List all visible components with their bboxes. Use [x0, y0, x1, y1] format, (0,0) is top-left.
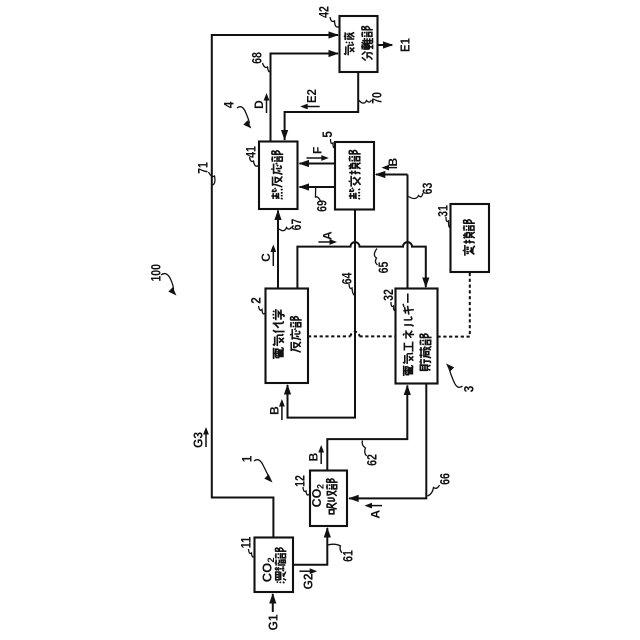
wire 62 B : 吸収部 -> 貯蔵部	[327, 386, 407, 471]
svg-text:C: C	[259, 253, 273, 262]
dashed link 貯蔵部 - 変換部	[438, 273, 470, 337]
svg-text:11: 11	[238, 536, 254, 548]
dashed link 電気化学反応部 - 貯蔵部	[308, 335, 351, 337]
svg-text:G1: G1	[266, 615, 281, 631]
svg-text:G2: G2	[301, 574, 316, 590]
wire 66 A : 貯蔵部 -> 吸収部	[349, 384, 426, 499]
svg-text:B: B	[268, 406, 282, 415]
wire 68 D : 熱反応部 -> 気液分離部	[271, 54, 339, 142]
svg-text:65: 65	[375, 261, 391, 273]
box 2 電気化学反応部	[266, 289, 309, 384]
svg-text:1: 1	[239, 456, 255, 463]
svg-text:E2: E2	[305, 89, 319, 103]
svg-text:F: F	[311, 147, 325, 154]
svg-text:71: 71	[195, 162, 211, 174]
svg-text:31: 31	[435, 205, 451, 217]
wire 71 G3 line : CO2濃縮部 -> 気液分離部	[212, 35, 338, 538]
box 31 変換部	[451, 204, 490, 272]
wire 70 E2 : 気液分離部 -> 熱反応部	[285, 72, 359, 140]
svg-text:5: 5	[319, 131, 335, 138]
wire 67 C : 電気化学反応部 -> 熱反応部	[277, 211, 279, 289]
box 5 熱交換部	[335, 142, 374, 210]
svg-text:32: 32	[380, 289, 396, 301]
wire 64 B : 熱交換部 -> 電気化学反応部	[288, 210, 356, 418]
svg-text:2: 2	[316, 484, 326, 489]
wire 69 : 熱交換部 -> 熱反応部 (lower)	[300, 186, 336, 188]
box 41 熱反応部	[259, 142, 298, 210]
svg-text:CO: CO	[310, 488, 324, 507]
svg-text:42: 42	[316, 6, 332, 18]
svg-text:A: A	[369, 510, 383, 519]
svg-text:100: 100	[149, 264, 164, 282]
box 11 CO2濃縮部	[255, 538, 294, 593]
svg-text:D: D	[252, 100, 266, 109]
svg-text:41: 41	[243, 146, 259, 158]
svg-text:3: 3	[461, 386, 477, 393]
wire 63 : 貯蔵部 -> B corner	[407, 175, 409, 289]
box 42 気液分離部	[340, 16, 378, 72]
wire 65 A : 電気化学反応部 -> 貯蔵部 (hops)	[297, 242, 425, 288]
svg-text:12: 12	[292, 475, 308, 487]
svg-text:E1: E1	[399, 38, 413, 52]
wire B into 熱交換部 bottom	[376, 174, 408, 176]
svg-text:2: 2	[248, 297, 264, 304]
wire 61 G2 : 濃縮部 -> 吸収部	[293, 528, 327, 565]
svg-text:A: A	[321, 231, 335, 240]
svg-text:70: 70	[369, 92, 385, 104]
wire F : 熱交換部 -> 熱反応部 (upper)	[300, 163, 336, 165]
svg-text:66: 66	[437, 473, 453, 485]
box 32 電気エネルギー貯蔵部	[396, 289, 438, 384]
svg-text:69: 69	[314, 200, 330, 212]
svg-text:B: B	[307, 452, 321, 461]
wire G1 into 濃縮部	[272, 594, 274, 612]
svg-text:CO: CO	[259, 563, 274, 583]
svg-text:68: 68	[249, 52, 265, 64]
box 12 CO2吸収部	[310, 471, 347, 527]
svg-text:63: 63	[419, 182, 435, 194]
wire E1 out of 気液分離部	[378, 44, 393, 46]
svg-text:64: 64	[339, 272, 355, 284]
svg-text:4: 4	[221, 102, 237, 109]
